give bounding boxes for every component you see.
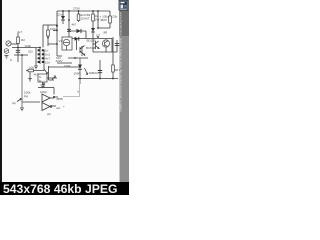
- wire feedback top: [38, 87, 54, 89]
- potentiometer VR1 wiper: [17, 98, 21, 101]
- capacitor C2: [67, 29, 71, 31]
- ground G2: [20, 108, 24, 111]
- svg-text:150R: 150R: [74, 72, 82, 76]
- potentiometer VR2 arrow: [85, 68, 88, 75]
- wire rail end drop: [109, 11, 111, 28]
- svg-text:click on image to close this w: click on image to close this window and …: [119, 38, 123, 113]
- wire speaker column: [112, 37, 114, 79]
- svg-text:in: in: [10, 58, 13, 62]
- wire center column: [56, 11, 58, 56]
- wire q1 collector: [76, 39, 78, 51]
- capacitor C1: [16, 50, 20, 52]
- svg-text:100k: 100k: [64, 64, 71, 68]
- resistor R3: [77, 14, 80, 21]
- svg-text:(b): (b): [47, 112, 51, 116]
- svg-text:www.chambonino: www.chambonino: [119, 12, 123, 36]
- wire switch right: [43, 50, 45, 64]
- diode D4: [75, 37, 79, 41]
- ground G5: [41, 85, 45, 88]
- svg-text:10k: 10k: [29, 66, 34, 70]
- svg-text:+: +: [63, 105, 65, 109]
- wire cathode column lower faint: [79, 84, 81, 97]
- wire amp out long: [54, 96, 58, 98]
- transistor Q4: [44, 69, 48, 74]
- svg-text:1M: 1M: [21, 38, 26, 42]
- wire diode link: [69, 30, 86, 32]
- input jack J2: [4, 49, 9, 54]
- wire mid bus: [57, 62, 72, 64]
- capacitor C4 output: [98, 71, 102, 73]
- wire tr branch: [111, 39, 113, 53]
- svg-text:V1: V1: [59, 39, 63, 43]
- capacitor C5: [115, 44, 119, 46]
- wire tap: [14, 54, 28, 56]
- wire switch mid: [39, 48, 41, 65]
- transistor Q2 output: [93, 41, 99, 49]
- wire out cap column: [99, 60, 101, 79]
- input jack J1: [6, 41, 11, 46]
- node dots on rails: [17, 10, 114, 79]
- wire feedback drop: [53, 88, 55, 95]
- svg-text:out: out: [56, 106, 60, 110]
- wire rail stub B: [68, 11, 70, 37]
- wire switch left: [35, 48, 37, 66]
- svg-text:22k: 22k: [112, 15, 117, 19]
- diode D2: [77, 29, 82, 33]
- svg-text:4k7: 4k7: [34, 73, 39, 77]
- wire sec cap: [116, 40, 118, 52]
- wire bottom link: [98, 27, 110, 29]
- svg-text:543x768 46kb JPEG: 543x768 46kb JPEG: [3, 182, 118, 195]
- wire op-amp jog: [50, 97, 54, 98]
- wire anode link: [57, 55, 62, 57]
- transistor Q3: [102, 40, 109, 47]
- wire q3 emitter: [105, 47, 107, 52]
- svg-text:log: log: [24, 94, 28, 98]
- capacitor C3 polarized: [109, 16, 112, 23]
- svg-text:22u: 22u: [58, 13, 63, 17]
- svg-text:OT: OT: [96, 34, 100, 38]
- right gray banner strip: [120, 0, 130, 182]
- svg-text:400V: 400V: [56, 59, 63, 63]
- diode D1: [61, 16, 65, 20]
- wire emitter corner: [49, 79, 55, 81]
- wire grid bottom: [48, 43, 57, 45]
- wire bottom rail: [78, 78, 118, 80]
- tube V1 envelope: [62, 37, 72, 50]
- svg-text:4u7: 4u7: [17, 30, 22, 34]
- svg-text:450V: 450V: [100, 18, 107, 22]
- svg-text:10n: 10n: [45, 60, 50, 64]
- svg-text:100k: 100k: [40, 90, 47, 94]
- transistor Q1: [80, 46, 85, 56]
- wire rail stub A: [62, 11, 64, 24]
- svg-text:BC548: BC548: [86, 46, 96, 50]
- wire ground drop: [29, 71, 31, 79]
- page background: [0, 0, 129, 195]
- svg-text:100k: 100k: [25, 44, 32, 48]
- wire long bus: [48, 66, 80, 68]
- wire resistor column R3: [78, 11, 80, 22]
- wire grid column: [47, 25, 49, 46]
- ground G4: [28, 79, 32, 82]
- banner vertical text upper: [119, 12, 123, 113]
- op-amp U1b: [42, 103, 52, 111]
- arrow A1: [52, 76, 56, 80]
- wire diode drop: [85, 31, 87, 39]
- op-amp U1a: [42, 94, 50, 102]
- svg-text:12AX7: 12AX7: [81, 16, 90, 20]
- wire box out: [47, 77, 57, 79]
- wire upper bus: [68, 57, 88, 59]
- resistor R2: [47, 30, 50, 36]
- wire output top: [72, 38, 112, 40]
- svg-text:100n: 100n: [50, 27, 57, 31]
- resistor R1: [17, 37, 20, 44]
- left black border of photo: [0, 0, 2, 182]
- wire amp out faint: [63, 96, 80, 98]
- wire HT rail: [57, 10, 110, 12]
- wire resistor column R4: [92, 11, 94, 52]
- svg-text:4k7: 4k7: [72, 23, 77, 27]
- wire q4 collector: [43, 64, 45, 71]
- wire feedback stub: [43, 83, 45, 88]
- svg-text:4558: 4558: [56, 97, 63, 101]
- wire sec top: [93, 51, 117, 53]
- resistor R6 speaker: [112, 65, 115, 72]
- wire volume column: [21, 55, 23, 108]
- wire grid tick: [53, 30, 57, 32]
- wire box ground: [42, 82, 44, 85]
- svg-text:(a): (a): [12, 101, 16, 105]
- wire node column: [97, 11, 99, 28]
- wire amp input: [22, 101, 40, 103]
- banner shading top: [119, 10, 129, 36]
- wire mix column: [42, 25, 44, 48]
- svg-text:BD139: BD139: [87, 39, 97, 43]
- value labels: [10, 7, 120, 117]
- relay box K1: [38, 74, 47, 82]
- node dot output: [53, 96, 55, 98]
- wire input horizontal: [11, 43, 18, 45]
- switch S1 contacts: [38, 49, 45, 63]
- resistor R7: [28, 69, 34, 72]
- wire pot feed: [12, 47, 40, 49]
- wire amp out 2: [50, 105, 56, 107]
- caption bar: [0, 182, 129, 195]
- wire input column: [17, 33, 19, 62]
- svg-text:275V: 275V: [73, 7, 80, 11]
- wire q2 body: [81, 46, 83, 56]
- ground G3: [5, 56, 9, 59]
- resistor R4: [92, 14, 95, 21]
- diode D3: [91, 28, 95, 32]
- svg-text:22n: 22n: [28, 50, 33, 54]
- gallery icon top-right: [119, 0, 129, 10]
- wire emitter column: [48, 66, 50, 80]
- capacitor C7 tick: [43, 83, 45, 85]
- capacitor C6 polarized: [78, 65, 82, 70]
- wire grid link: [43, 24, 57, 26]
- wire stage in: [26, 70, 44, 72]
- ground G1: [34, 66, 38, 69]
- svg-text:10u: 10u: [93, 71, 98, 75]
- svg-text:lp: lp: [39, 78, 42, 82]
- wire cathode column: [79, 58, 81, 84]
